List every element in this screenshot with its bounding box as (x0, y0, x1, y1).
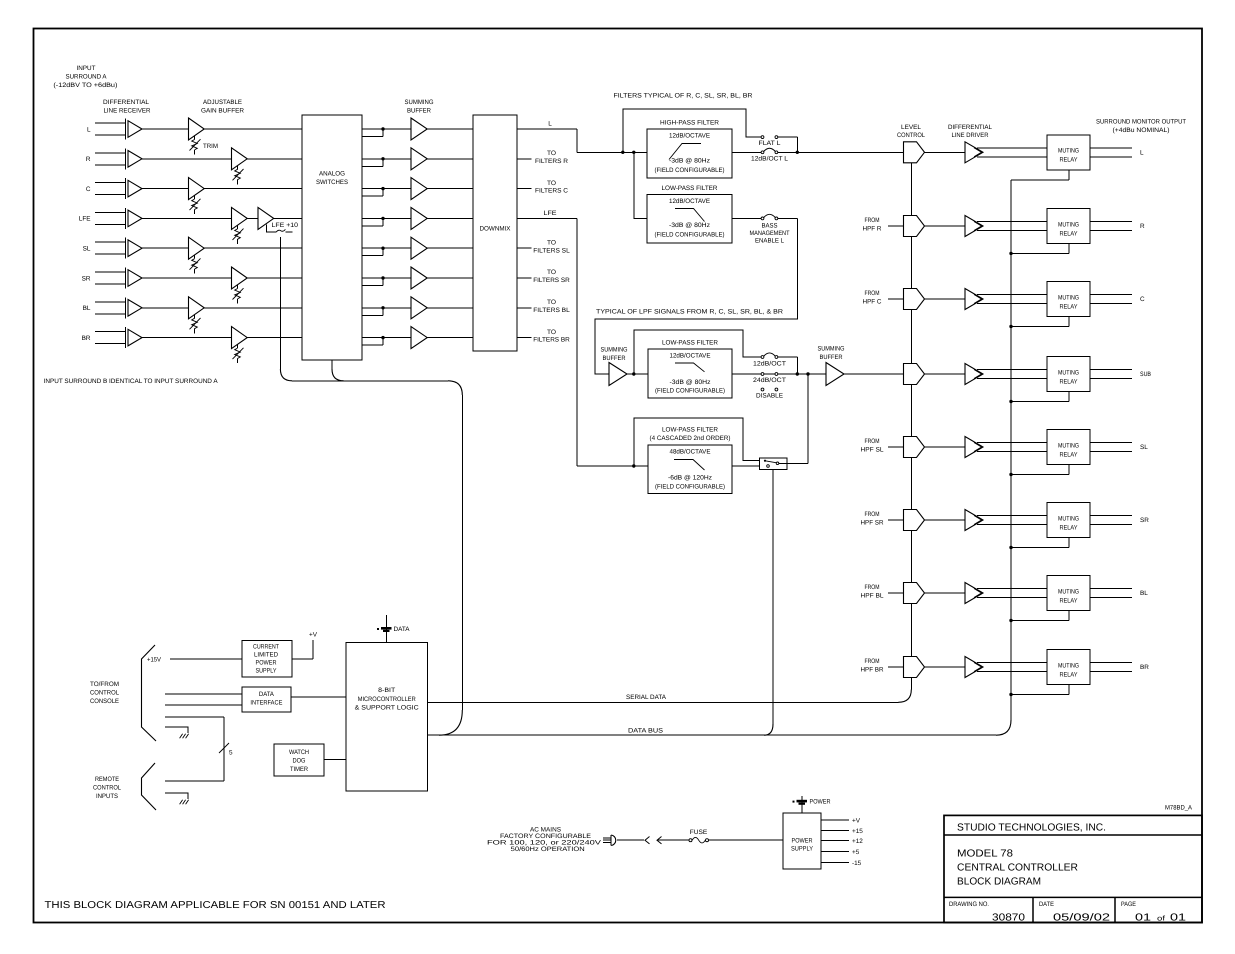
svg-text:+5: +5 (852, 849, 860, 856)
svg-text:R: R (1140, 223, 1145, 230)
svg-text:C: C (1140, 296, 1145, 303)
svg-text:LOW-PASS FILTER: LOW-PASS FILTER (662, 340, 718, 347)
svg-text:M78BD_A: M78BD_A (1165, 805, 1193, 812)
svg-text:HPF SL: HPF SL (861, 447, 884, 454)
svg-text:LINE RECEIVER: LINE RECEIVER (104, 108, 151, 115)
svg-text:(FIELD CONFIGURABLE): (FIELD CONFIGURABLE) (655, 388, 725, 395)
svg-text:INPUT: INPUT (77, 65, 96, 72)
svg-text:TYPICAL OF LPF SIGNALS FROM R,: TYPICAL OF LPF SIGNALS FROM R, C, SL, SR… (596, 309, 783, 316)
svg-text:BR: BR (1140, 664, 1149, 671)
svg-text:(+4dBu NOMINAL): (+4dBu NOMINAL) (1113, 127, 1170, 134)
svg-text:DIFFERENTIAL: DIFFERENTIAL (948, 124, 992, 131)
svg-text:FUSE: FUSE (690, 829, 708, 836)
svg-text:LEVEL: LEVEL (901, 124, 921, 131)
svg-text:REMOTE: REMOTE (95, 776, 119, 783)
svg-text:BL: BL (83, 305, 91, 312)
svg-text:5: 5 (229, 750, 233, 757)
svg-text:12dB/OCTAVE: 12dB/OCTAVE (669, 133, 710, 140)
svg-text:LFE +10: LFE +10 (272, 222, 299, 229)
svg-text:SURROUND MONITOR OUTPUT: SURROUND MONITOR OUTPUT (1096, 119, 1186, 126)
svg-text:MUTING: MUTING (1058, 221, 1079, 228)
svg-text:BUFFER: BUFFER (407, 108, 431, 115)
svg-text:MICROCONTROLLER: MICROCONTROLLER (358, 696, 416, 703)
svg-text:INTERFACE: INTERFACE (250, 700, 282, 707)
svg-text:THIS BLOCK DIAGRAM APPLICABLE: THIS BLOCK DIAGRAM APPLICABLE FOR SN 001… (45, 900, 386, 911)
svg-text:POWER: POWER (792, 838, 813, 845)
svg-text:BASS: BASS (762, 222, 778, 229)
svg-text:01: 01 (1135, 912, 1151, 923)
svg-text:MANAGEMENT: MANAGEMENT (750, 230, 790, 237)
svg-text:SUMMING: SUMMING (405, 99, 434, 106)
svg-text:LFE: LFE (544, 210, 557, 217)
svg-text:TO: TO (547, 299, 556, 306)
svg-text:CONTROL: CONTROL (897, 132, 925, 139)
svg-text:LOW-PASS FILTER: LOW-PASS FILTER (662, 185, 718, 192)
svg-text:SR: SR (82, 275, 91, 282)
svg-text:MODEL 78: MODEL 78 (957, 849, 1013, 860)
svg-text:BL: BL (1140, 590, 1148, 597)
svg-text:CONSOLE: CONSOLE (90, 698, 119, 705)
svg-text:30870: 30870 (992, 912, 1025, 923)
svg-text:SERIAL DATA: SERIAL DATA (626, 694, 667, 701)
svg-text:DATA BUS: DATA BUS (628, 727, 663, 734)
svg-text:L: L (87, 126, 91, 133)
svg-text:MUTING: MUTING (1058, 294, 1079, 301)
svg-text:FILTERS BR: FILTERS BR (533, 337, 570, 344)
svg-text:DRAWING NO.: DRAWING NO. (949, 901, 989, 908)
svg-text:TIMER: TIMER (290, 766, 308, 773)
svg-text:TO/FROM: TO/FROM (90, 681, 119, 688)
svg-text:DOG: DOG (293, 758, 306, 765)
svg-text:RELAY: RELAY (1060, 524, 1079, 531)
svg-text:LFE: LFE (79, 216, 91, 223)
svg-text:SWITCHES: SWITCHES (316, 179, 348, 186)
svg-text:FROM: FROM (865, 217, 880, 224)
svg-text:TRIM: TRIM (203, 143, 218, 150)
svg-text:LOW-PASS FILTER: LOW-PASS FILTER (662, 427, 718, 434)
svg-text:05/09/02: 05/09/02 (1053, 912, 1110, 923)
svg-text:GAIN BUFFER: GAIN BUFFER (201, 108, 244, 115)
svg-text:+V: +V (309, 632, 318, 639)
svg-text:FROM: FROM (865, 438, 880, 445)
svg-text:HPF C: HPF C (863, 299, 882, 306)
svg-text:DIFFERENTIAL: DIFFERENTIAL (103, 99, 149, 106)
svg-text:01: 01 (1170, 912, 1186, 923)
svg-text:FILTERS SL: FILTERS SL (533, 247, 570, 254)
svg-text:-3dB @ 80Hz: -3dB @ 80Hz (670, 379, 711, 386)
svg-text:+12: +12 (852, 838, 863, 845)
svg-text:MUTING: MUTING (1058, 148, 1079, 155)
svg-text:HPF R: HPF R (863, 226, 882, 233)
svg-text:POWER: POWER (256, 660, 277, 667)
svg-text:CONTROL: CONTROL (93, 785, 121, 792)
svg-text:RELAY: RELAY (1060, 378, 1079, 385)
svg-text:ADJUSTABLE: ADJUSTABLE (203, 99, 242, 106)
svg-text:SUPPLY: SUPPLY (791, 846, 814, 853)
svg-text:FILTERS C: FILTERS C (535, 188, 568, 195)
svg-text:DATA: DATA (394, 626, 411, 633)
svg-text:12dB/OCT: 12dB/OCT (753, 360, 786, 367)
svg-text:LINE DRIVER: LINE DRIVER (952, 132, 989, 139)
svg-text:ANALOG: ANALOG (319, 171, 345, 178)
svg-text:STUDIO TECHNOLOGIES, INC.: STUDIO TECHNOLOGIES, INC. (957, 823, 1106, 834)
svg-text:(FIELD CONFIGURABLE): (FIELD CONFIGURABLE) (655, 232, 725, 239)
svg-text:of: of (1157, 914, 1165, 922)
svg-text:BUFFER: BUFFER (820, 354, 843, 361)
svg-text:(4 CASCADED 2nd ORDER): (4 CASCADED 2nd ORDER) (650, 435, 731, 442)
svg-text:MUTING: MUTING (1058, 515, 1079, 522)
svg-text:L: L (548, 121, 552, 128)
svg-text:FILTERS SR: FILTERS SR (533, 277, 570, 284)
svg-text:INPUTS: INPUTS (96, 793, 118, 800)
svg-text:BLOCK DIAGRAM: BLOCK DIAGRAM (957, 877, 1041, 888)
svg-text:(FIELD CONFIGURABLE): (FIELD CONFIGURABLE) (655, 167, 725, 174)
svg-text:8-BIT: 8-BIT (378, 687, 395, 694)
svg-text:+V: +V (852, 817, 861, 824)
svg-text:FROM: FROM (865, 584, 880, 591)
svg-text:TO: TO (547, 329, 556, 336)
svg-text:INPUT SURROUND B IDENTICAL TO: INPUT SURROUND B IDENTICAL TO INPUT SURR… (44, 378, 219, 385)
svg-text:MUTING: MUTING (1058, 369, 1079, 376)
svg-text:DISABLE: DISABLE (756, 393, 783, 400)
svg-text:WATCH: WATCH (289, 749, 309, 756)
svg-text:SR: SR (1140, 517, 1149, 524)
svg-text:FROM: FROM (865, 290, 880, 297)
svg-text:SUPPLY: SUPPLY (256, 668, 278, 675)
svg-text:-3dB @ 80Hz: -3dB @ 80Hz (669, 222, 710, 229)
svg-text:12dB/OCTAVE: 12dB/OCTAVE (670, 352, 711, 359)
svg-text:DATA: DATA (259, 691, 275, 698)
svg-text:FROM: FROM (865, 658, 880, 665)
svg-text:CENTRAL CONTROLLER: CENTRAL CONTROLLER (957, 862, 1078, 873)
svg-text:MUTING: MUTING (1058, 662, 1079, 669)
svg-text:FLAT L: FLAT L (759, 140, 781, 147)
svg-text:MUTING: MUTING (1058, 588, 1079, 595)
svg-text:LIMITED: LIMITED (254, 652, 278, 659)
svg-text:TO: TO (547, 150, 556, 157)
svg-text:FROM: FROM (865, 511, 880, 518)
svg-text:RELAY: RELAY (1060, 230, 1079, 237)
svg-text:FILTERS R: FILTERS R (535, 158, 568, 165)
svg-text:12dB/OCT L: 12dB/OCT L (751, 156, 788, 163)
svg-text:SURROUND A: SURROUND A (66, 74, 108, 81)
svg-text:BUFFER: BUFFER (603, 355, 626, 362)
svg-text:MUTING: MUTING (1058, 442, 1079, 449)
svg-text:HPF BL: HPF BL (861, 593, 884, 600)
svg-text:& SUPPORT LOGIC: & SUPPORT LOGIC (355, 705, 419, 712)
svg-text:HIGH-PASS FILTER: HIGH-PASS FILTER (660, 120, 719, 127)
svg-text:POWER: POWER (810, 799, 831, 806)
svg-text:-6dB @ 120Hz: -6dB @ 120Hz (668, 475, 712, 482)
svg-text:FILTERS TYPICAL OF R, C, SL, S: FILTERS TYPICAL OF R, C, SL, SR, BL, BR (614, 93, 753, 100)
svg-text:HPF SR: HPF SR (861, 520, 884, 527)
svg-text:SUB: SUB (1140, 371, 1151, 378)
svg-text:SUMMING: SUMMING (818, 346, 845, 353)
svg-text:RELAY: RELAY (1060, 157, 1079, 164)
svg-text:-3dB @ 80Hz: -3dB @ 80Hz (669, 158, 710, 165)
svg-text:R: R (86, 156, 91, 163)
svg-text:HPF BR: HPF BR (861, 667, 884, 674)
svg-text:RELAY: RELAY (1060, 303, 1079, 310)
svg-text:+15: +15 (852, 828, 863, 835)
svg-text:CURRENT: CURRENT (253, 644, 279, 651)
svg-text:TO: TO (547, 180, 556, 187)
svg-text:SL: SL (1140, 444, 1148, 451)
svg-text:DATE: DATE (1039, 901, 1054, 908)
svg-text:L: L (1140, 149, 1144, 156)
svg-text:24dB/OCT: 24dB/OCT (753, 377, 786, 384)
svg-text:(FIELD CONFIGURABLE): (FIELD CONFIGURABLE) (655, 484, 725, 491)
svg-text:-15: -15 (852, 860, 862, 867)
svg-text:+15V: +15V (147, 657, 162, 664)
svg-text:BR: BR (82, 335, 91, 342)
svg-text:(-12dBV TO +6dBu): (-12dBV TO +6dBu) (53, 82, 117, 89)
svg-text:RELAY: RELAY (1060, 597, 1079, 604)
svg-text:50/60Hz OPERATION: 50/60Hz OPERATION (511, 846, 585, 853)
svg-text:CONTROL: CONTROL (90, 690, 119, 697)
svg-text:SL: SL (83, 246, 91, 253)
svg-text:TO: TO (547, 239, 556, 246)
svg-text:48dB/OCTAVE: 48dB/OCTAVE (670, 449, 711, 456)
svg-text:12dB/OCTAVE: 12dB/OCTAVE (669, 198, 710, 205)
svg-text:RELAY: RELAY (1060, 451, 1079, 458)
svg-text:TO: TO (547, 269, 556, 276)
svg-text:RELAY: RELAY (1060, 671, 1079, 678)
svg-text:DOWNMIX: DOWNMIX (480, 226, 512, 233)
svg-text:SUMMING: SUMMING (601, 346, 628, 353)
svg-text:ENABLE L: ENABLE L (755, 237, 784, 244)
svg-text:C: C (86, 186, 91, 193)
svg-text:FILTERS BL: FILTERS BL (533, 307, 570, 314)
svg-text:PAGE: PAGE (1121, 901, 1136, 908)
